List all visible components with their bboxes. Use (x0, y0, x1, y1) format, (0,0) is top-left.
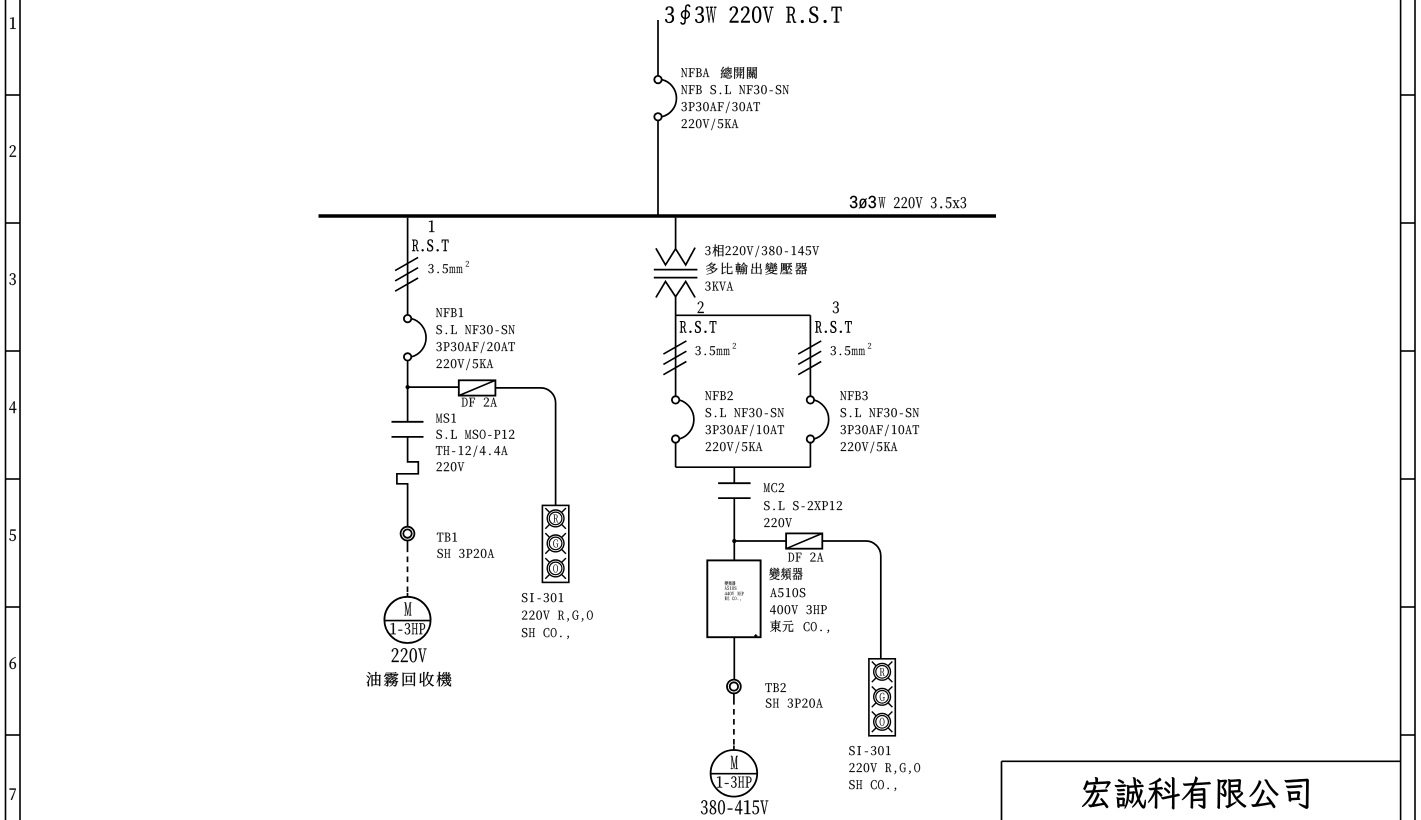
label R.S.T branch3 (815, 321, 851, 333)
title block border (1002, 760, 1401, 762)
wire inverter to TB2 (733, 637, 735, 680)
label 3.5mm2 branch3 (831, 346, 865, 355)
indicator lamps SI-301 left (542, 505, 568, 582)
wire NFB1 to junction (407, 361, 409, 422)
label MS1 (436, 414, 456, 423)
wire rejoin footer (676, 466, 811, 468)
label oil mist recycler (366, 672, 451, 687)
wire branch2 down (675, 315, 677, 396)
label inverter (769, 568, 802, 581)
right ruler tick 5 (1401, 606, 1415, 608)
wire dashed TB2 to motor M2 (733, 693, 735, 699)
wire junction to fuse DF2 (734, 540, 786, 542)
contactor MS1 (392, 421, 424, 423)
right ruler tick 1 (1401, 94, 1415, 96)
left ruler column (5, 0, 7, 820)
wire junction to fuse DF1 (408, 386, 459, 388)
transformer T1 (656, 248, 695, 265)
left ruler row number 5 (9, 530, 16, 542)
left ruler row number 7 (10, 789, 16, 800)
left ruler tick 5 (6, 606, 21, 608)
inverter box A510S (707, 560, 760, 637)
inverter tiny nameplate text (725, 581, 736, 585)
right ruler column (1400, 0, 1402, 820)
breaker NFB3 (807, 396, 814, 403)
label SI-301 left (522, 593, 563, 602)
label SI-301 right (849, 746, 890, 755)
bus bar (319, 214, 997, 217)
breaker NFBA (654, 76, 661, 83)
junction dot branch1 (406, 386, 409, 389)
company name 宏誠科有限公司 (1082, 777, 1309, 810)
wire dashed TB1 to motor M1 (407, 541, 409, 547)
wire rejoin to MC2 (733, 467, 735, 483)
wire breaker to bus (657, 121, 659, 216)
breaker NFB2 (672, 396, 679, 403)
left ruler tick 2 (6, 222, 21, 224)
label transformer (705, 246, 710, 255)
fuse DF2 (786, 533, 822, 548)
label TB2 (765, 683, 785, 692)
conductor slashes branch1 (395, 257, 418, 270)
left ruler row number 2 (10, 145, 16, 157)
wire feeder drop (657, 20, 659, 76)
label branch number 1 (429, 221, 435, 232)
left ruler tick 4 (6, 478, 21, 480)
motor M1 (384, 597, 430, 643)
inverter plus mark (754, 635, 757, 637)
label 380-415V motor2 (701, 800, 768, 814)
left ruler row number 4 (9, 401, 16, 413)
thermal overload OL1 (397, 437, 418, 527)
wire branch1 from bus (407, 218, 409, 315)
wire MC2 to inverter (733, 498, 735, 560)
left ruler tick 6 (6, 734, 21, 736)
label NFBA (681, 68, 709, 77)
label branch number 3 (833, 301, 839, 313)
label R.S.T branch2 (680, 321, 716, 333)
wire NFB3 to rejoin (809, 443, 811, 468)
left ruler row number 3 (9, 273, 15, 285)
left ruler tick 3 (6, 350, 21, 352)
label NFB1 (436, 308, 463, 317)
wire NFB2 to rejoin (675, 443, 677, 468)
label 220V motor1 (392, 648, 427, 662)
label R.S.T branch1 (412, 239, 448, 251)
terminal TB2 (727, 680, 741, 694)
fuse DF1 (459, 380, 496, 395)
wire split header (676, 314, 811, 316)
wire fuse2 to lamp SI-301 right (822, 541, 881, 659)
right ruler tick 6 (1401, 734, 1415, 736)
label branch number 2 (698, 301, 704, 313)
left ruler tick 1 (6, 94, 21, 96)
wire fuse1 to lamp SI-301 left (495, 388, 555, 506)
label TB1 (437, 533, 457, 542)
title 3-phase 220V R.S.T (665, 7, 674, 23)
breaker NFB1 (404, 315, 411, 322)
right ruler tick 2 (1401, 222, 1415, 224)
left ruler row number 6 (10, 657, 16, 669)
wire bus to transformer (675, 218, 677, 249)
junction dot MC2-fuse (733, 539, 736, 542)
contactor MC2 (718, 482, 751, 484)
conductor slashes branch2 (663, 341, 686, 354)
indicator lamps SI-301 right (869, 659, 895, 736)
bus label 3phi3W 220V 3.5x3 (850, 196, 876, 209)
label 3.5mm2 branch2 (695, 346, 729, 355)
label 3.5mm2 branch1 (428, 264, 462, 273)
wire branch3 down (809, 315, 811, 396)
terminal TB1 (401, 527, 415, 541)
left ruler row number 1 (10, 17, 16, 28)
wire transformer to split (675, 297, 677, 316)
label NFB3 (840, 391, 867, 400)
conductor slashes branch3 (798, 341, 821, 354)
right ruler tick 4 (1401, 478, 1415, 480)
right ruler tick 3 (1401, 350, 1415, 352)
label DF 2A fuse2 (788, 553, 823, 562)
label NFB2 (705, 391, 733, 400)
motor M2 (711, 750, 758, 797)
label MC2 (764, 483, 784, 492)
label DF 2A fuse1 (462, 398, 497, 407)
